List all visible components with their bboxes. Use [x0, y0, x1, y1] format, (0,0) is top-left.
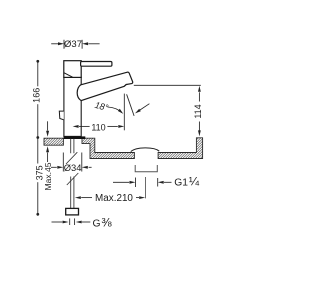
svg-text:Ø34: Ø34	[64, 162, 82, 173]
svg-text:G1 ¼: G1 ¼	[174, 175, 200, 189]
svg-text:166: 166	[31, 88, 41, 103]
svg-text:G ⅜: G ⅜	[93, 215, 113, 229]
svg-text:114: 114	[193, 104, 203, 118]
svg-text:Max.210: Max.210	[95, 193, 133, 204]
svg-text:Ø37: Ø37	[64, 39, 82, 50]
svg-text:110: 110	[91, 122, 105, 132]
svg-text:Max.45: Max.45	[43, 162, 53, 190]
